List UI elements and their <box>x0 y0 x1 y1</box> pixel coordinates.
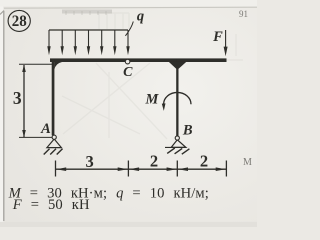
svg-text:C: C <box>123 65 133 80</box>
beam (horizontal member through C) <box>50 58 227 62</box>
svg-text:3: 3 <box>85 152 93 171</box>
svg-text:2: 2 <box>200 152 208 171</box>
hinge C (open circle on beam) <box>125 59 130 64</box>
page background <box>0 0 257 227</box>
leader line for label q <box>125 22 133 36</box>
vertical dimension 3 : line with arrows <box>23 65 25 137</box>
bottom dimension chain line <box>56 168 227 170</box>
tick at B <box>176 161 178 177</box>
svg-text:q: q <box>137 9 144 25</box>
pin support B <box>165 146 186 148</box>
column B (right post) <box>176 59 178 136</box>
distributed load q : top line <box>49 29 128 31</box>
svg-text:28: 28 <box>12 13 27 30</box>
pin support A <box>47 139 62 148</box>
svg-text:B: B <box>182 123 193 139</box>
svg-text:3: 3 <box>13 88 22 108</box>
force F arrow <box>225 30 227 48</box>
hatching under support A <box>44 149 63 155</box>
dimension arrows <box>56 167 226 171</box>
moment M arc <box>164 92 191 104</box>
distributed load q : arrow heads <box>47 46 129 55</box>
svg-text:M: M <box>145 91 160 107</box>
svg-text:F = 50 кН: F = 50 кН <box>12 197 90 213</box>
gusset at B column top <box>169 62 187 69</box>
svg-text:91: 91 <box>239 9 248 19</box>
faint bleed-through from reverse page (decorative) <box>62 13 243 139</box>
column A (left post) <box>52 59 55 135</box>
tick at C <box>127 161 129 177</box>
vertical dimension 3 : extension lines <box>19 63 53 65</box>
svg-text:M: M <box>243 157 252 168</box>
tick at beam end <box>225 161 227 177</box>
page frame borders (decorative) <box>3 11 5 221</box>
svg-text:A: A <box>40 121 51 137</box>
tick at A <box>55 161 57 177</box>
problem number badge 28 <box>8 10 30 31</box>
svg-text:F: F <box>212 29 223 45</box>
corner fillet at A column top <box>54 62 62 70</box>
svg-text:2: 2 <box>150 151 158 170</box>
distributed load q : arrow stems <box>49 30 128 48</box>
hatching under support B <box>167 148 189 154</box>
main ink <box>19 22 228 177</box>
